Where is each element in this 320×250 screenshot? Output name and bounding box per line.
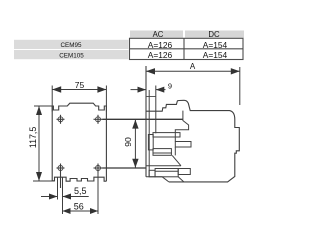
svg-text:56: 56	[74, 202, 84, 212]
lower terminal bar	[155, 169, 178, 177]
lower wedge	[178, 177, 184, 182]
upper terminal clamp bars	[153, 149, 171, 156]
svg-text:9: 9	[168, 82, 172, 91]
mounting hole top-right	[94, 115, 103, 124]
table label band CEM105	[14, 50, 129, 59]
lower terminal support line	[146, 165, 181, 167]
svg-text:A=154: A=154	[203, 50, 228, 60]
table header DC	[185, 30, 244, 39]
mounting hole bottom-left	[57, 164, 65, 189]
table values row1	[148, 40, 228, 50]
mounting hole bottom-right	[94, 164, 103, 173]
upper terminal screw box	[148, 135, 153, 150]
mounting hole top-left	[57, 115, 65, 124]
projection line bottom holes to side view	[103, 167, 147, 169]
dimension A	[146, 67, 240, 105]
svg-text:75: 75	[75, 80, 85, 90]
dimension 9	[131, 86, 166, 134]
side view rail hook top	[146, 96, 156, 98]
svg-text:90: 90	[123, 137, 133, 147]
table values row2	[148, 50, 228, 60]
svg-text:A=126: A=126	[148, 40, 173, 50]
upper terminal top bar	[153, 133, 180, 137]
dimension 90	[132, 120, 138, 168]
svg-text:A=126: A=126	[148, 50, 173, 60]
dimension 117,5	[33, 106, 55, 181]
projection line top holes to side view	[103, 118, 183, 120]
lower terminal chamfer	[172, 155, 181, 165]
svg-text:5,5: 5,5	[74, 186, 87, 196]
side view mounting face	[145, 66, 147, 177]
table label band CEM95	[14, 40, 129, 49]
svg-text:A=154: A=154	[203, 40, 228, 50]
svg-text:CEM95: CEM95	[61, 42, 82, 49]
side tab lower	[178, 169, 190, 175]
side view front face lower	[174, 147, 176, 155]
lower clip box	[149, 170, 155, 177]
svg-text:117,5: 117,5	[28, 127, 38, 148]
table header AC	[130, 30, 183, 39]
svg-text:A: A	[190, 62, 196, 71]
side view bump right face	[175, 111, 188, 142]
dimension 75	[52, 86, 106, 112]
table value box	[130, 38, 244, 59]
svg-text:CEM105: CEM105	[59, 52, 84, 59]
dimension 5,5	[41, 194, 89, 200]
dimension 56 extension line right	[97, 172, 99, 214]
side view right edge with chute step	[169, 120, 240, 182]
side view plate lower line	[148, 90, 150, 177]
front view body outline top	[52, 103, 106, 181]
front view body bottom edge	[52, 177, 106, 181]
dimension 56	[63, 208, 99, 214]
dimension 5,5 extension lines	[58, 177, 63, 214]
side tab upper	[175, 142, 191, 148]
side view bottom edge	[146, 177, 169, 182]
side view top profile with bump	[146, 100, 235, 119]
